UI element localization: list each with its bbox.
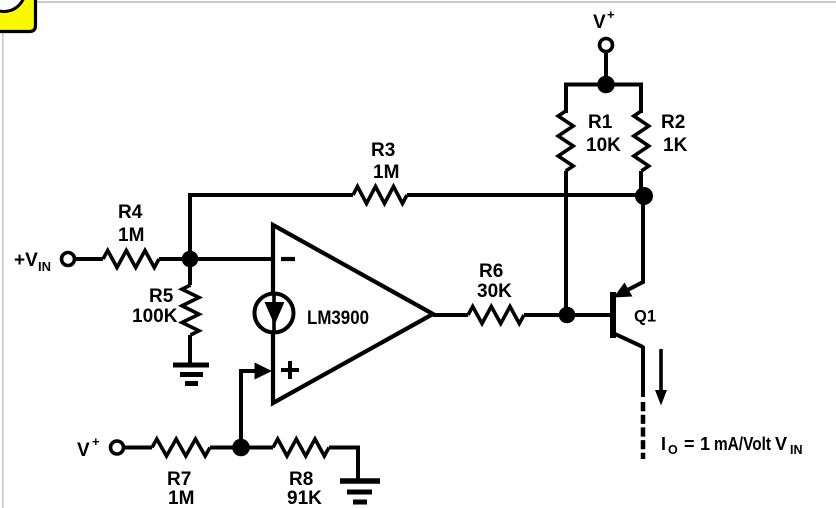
wire collector of Q1	[641, 346, 645, 397]
resistor R8	[273, 439, 329, 456]
svg-text:V: V	[593, 12, 606, 33]
wire R5 upper lead	[188, 259, 192, 285]
svg-text:1M: 1M	[373, 162, 399, 183]
svg-text:R4: R4	[118, 202, 143, 223]
wire R8 to ground	[329, 448, 358, 481]
wire R3 left segment	[188, 193, 353, 197]
transistor Q1	[613, 283, 643, 348]
svg-text:R5: R5	[149, 286, 174, 307]
ground for R5	[173, 365, 209, 384]
svg-text:I: I	[661, 434, 666, 454]
ground for R8	[340, 481, 380, 502]
svg-text:R3: R3	[371, 140, 395, 161]
terminal +VIN	[62, 253, 75, 266]
svg-text:IN: IN	[790, 443, 803, 457]
yellow corner ornament	[0, 0, 36, 32]
wire node A to inverting input	[190, 257, 275, 261]
resistor R4	[103, 251, 159, 268]
svg-text:LM3900: LM3900	[307, 308, 369, 329]
svg-text:R1: R1	[588, 112, 613, 133]
wire R4 to node	[159, 257, 192, 261]
svg-text:+V: +V	[14, 250, 38, 271]
wire R2 branch to node E	[639, 171, 643, 196]
resistor R7	[152, 439, 210, 456]
wire rail bar	[566, 85, 641, 114]
terminal V+ top	[600, 39, 613, 52]
wire R7 to node B	[210, 446, 241, 450]
node E emitter junction	[635, 187, 653, 205]
resistor R2	[634, 111, 649, 171]
node B bias junction	[232, 439, 250, 457]
plus sign non-inverting input	[281, 361, 299, 379]
svg-text:R6: R6	[479, 261, 503, 282]
node A inverting-input junction	[182, 251, 199, 268]
wire V+ lead to R7	[124, 446, 152, 450]
wire input lead	[75, 257, 103, 261]
page left edge line	[2, 3, 4, 508]
wire node B to R8	[241, 446, 273, 450]
resistor R5	[182, 285, 199, 335]
svg-text:mA/Volt: mA/Volt	[714, 434, 771, 454]
node D supply rail junction	[597, 76, 615, 94]
svg-text:1: 1	[700, 434, 710, 454]
svg-text:Q1: Q1	[634, 308, 656, 326]
wire collector dashed	[641, 402, 646, 459]
svg-text:10K: 10K	[586, 135, 621, 156]
wire V+ to rail node	[604, 51, 608, 85]
svg-text:100K: 100K	[132, 306, 178, 327]
svg-text:O: O	[668, 443, 678, 457]
wire riser node A to R3	[188, 195, 192, 259]
resistor R3	[353, 187, 407, 204]
wire R3 right segment	[407, 193, 643, 197]
svg-text:R2: R2	[661, 112, 685, 133]
wire plus input riser	[241, 371, 259, 447]
op-amp U1 LM3900	[273, 225, 433, 403]
wire R6 to node C	[524, 313, 611, 317]
svg-text:V: V	[775, 434, 787, 454]
svg-text:=: =	[684, 434, 695, 454]
svg-text:V: V	[77, 440, 90, 461]
page top edge line	[0, 1, 836, 3]
svg-text:+: +	[92, 434, 100, 449]
arrowhead into plus input	[255, 363, 273, 380]
wire op-amp output	[433, 313, 468, 317]
svg-text:+: +	[607, 7, 615, 22]
wire emitter of Q1	[617, 196, 643, 296]
terminal V+ bottom	[111, 441, 124, 454]
node C output junction	[559, 307, 576, 324]
svg-text:1K: 1K	[663, 135, 688, 156]
arrow Io direction	[655, 349, 667, 406]
wire R1 branch to node C	[564, 171, 568, 315]
svg-text:1M: 1M	[168, 488, 194, 508]
resistor R1	[558, 111, 573, 171]
svg-text:1M: 1M	[118, 225, 144, 246]
svg-text:R7: R7	[167, 469, 191, 490]
minus sign inverting input	[281, 257, 295, 261]
wire R5 to ground	[188, 335, 192, 365]
current source symbol inside op-amp	[255, 294, 294, 333]
svg-text:IN: IN	[38, 259, 51, 274]
svg-text:91K: 91K	[287, 488, 322, 508]
svg-text:R8: R8	[289, 469, 313, 490]
svg-text:30K: 30K	[477, 281, 512, 302]
resistor R6	[468, 307, 524, 324]
